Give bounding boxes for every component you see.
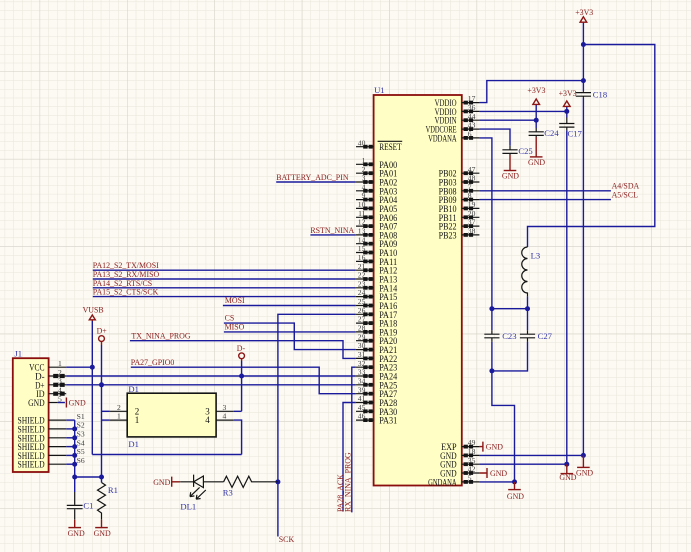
svg-text:GND: GND	[69, 398, 86, 407]
wire VDDANA to L3 bottom and C27	[492, 296, 528, 330]
svg-text:GND: GND	[576, 468, 593, 477]
U1 pin 49 EXP	[441, 438, 479, 452]
svg-text:20: 20	[468, 209, 476, 218]
U1 pin 12 PA07	[356, 218, 398, 232]
net label PA27_GPIO0	[131, 358, 175, 367]
wire SCK net: PA17 down to SCK label	[278, 314, 356, 536]
svg-text:23: 23	[358, 279, 366, 288]
svg-text:PB23: PB23	[439, 230, 457, 240]
net label TX_NINA_PROG	[131, 332, 190, 341]
J1 pin 4 ID	[36, 386, 66, 400]
svg-text:47: 47	[468, 165, 476, 174]
svg-text:GND: GND	[559, 473, 576, 482]
svg-text:24: 24	[358, 288, 366, 297]
J1 pin S4 SHIELD	[18, 438, 85, 452]
U1 pin 31 PA22	[356, 350, 397, 364]
svg-text:31: 31	[358, 350, 366, 359]
capacitor C24	[529, 128, 560, 138]
svg-text:25: 25	[358, 297, 366, 306]
svg-text:RX_NINA_PROG: RX_NINA_PROG	[343, 452, 352, 512]
J1 pin 5 GND	[28, 394, 62, 408]
svg-text:6: 6	[468, 130, 472, 139]
wire CS to PA21	[224, 323, 356, 350]
wire MISO to PA19	[224, 331, 356, 333]
net label MISO	[225, 323, 245, 332]
svg-text:16: 16	[358, 253, 366, 262]
U1 pin 45 PA30	[356, 403, 398, 417]
net label PA28_ACK (rotated)	[336, 474, 345, 512]
wire R1 top	[101, 477, 103, 483]
svg-text:8: 8	[468, 191, 472, 200]
svg-text:10: 10	[358, 200, 366, 209]
J1 pin 2 D-	[35, 368, 66, 382]
U1 pin 32 PA23	[356, 359, 398, 373]
svg-text:18: 18	[468, 447, 476, 456]
svg-text:PA31: PA31	[379, 416, 397, 426]
wire USB D+ row J1 to PA25	[66, 384, 356, 386]
svg-text:26: 26	[358, 306, 366, 315]
U1 pin 6 VDDANA	[428, 130, 479, 144]
svg-text:33: 33	[358, 368, 366, 377]
net label A4/SDA	[612, 182, 640, 191]
svg-text:R1: R1	[108, 485, 118, 495]
svg-text:C1: C1	[83, 501, 93, 511]
svg-text:C23: C23	[502, 331, 516, 341]
J1 pin S6 SHIELD	[18, 456, 85, 470]
net label PA15_S2_CTS/SCK	[93, 288, 159, 297]
U1 pin 39 PA27	[356, 385, 398, 399]
U1 pin 36 VDDIO	[435, 103, 480, 117]
svg-text:PA13_S2_RX/MISO: PA13_S2_RX/MISO	[93, 270, 160, 279]
ground at EXP pin49	[479, 442, 503, 452]
wire PA27_GPIO0 to PA27	[131, 367, 356, 394]
svg-text:4: 4	[205, 415, 210, 425]
svg-text:C18: C18	[593, 89, 607, 99]
U1 pin 41 PA28	[356, 394, 398, 408]
svg-text:46: 46	[358, 412, 366, 421]
J1 pin S2 SHIELD	[18, 421, 85, 435]
U1 pin 14 PA09	[356, 235, 398, 249]
svg-text:1: 1	[58, 359, 62, 368]
svg-text:SCK: SCK	[279, 535, 295, 544]
U1 pin 27 PA18	[356, 315, 398, 329]
wire A4/SDA from PB08	[479, 190, 611, 192]
svg-text:A4/SDA: A4/SDA	[612, 182, 640, 191]
svg-text:GND: GND	[507, 492, 524, 501]
J1 pin 1 VCC	[29, 359, 66, 373]
U1 pin 1 PA00	[356, 156, 398, 170]
U1 pin 7 PB08	[439, 182, 480, 196]
U1 pin 5 GNDANA	[428, 474, 479, 488]
svg-text:PA15_S2_CTS/SCK: PA15_S2_CTS/SCK	[93, 288, 159, 297]
U1 pin 48 PB03	[439, 174, 480, 188]
J1 pin S5 SHIELD	[18, 447, 85, 461]
capacitor C25	[502, 146, 532, 156]
U1 pin 9 PA04	[356, 191, 398, 205]
svg-text:S3: S3	[77, 430, 85, 439]
svg-text:MOSI: MOSI	[225, 296, 245, 305]
wire GND pin18 to C18 bottom	[479, 454, 583, 456]
J1 pin 3 D+	[35, 377, 66, 391]
svg-text:4: 4	[362, 182, 366, 191]
net label BATTERY_ADC_PIN	[276, 173, 349, 182]
U1 pin 29 PA20	[356, 332, 398, 346]
power VUSB	[83, 305, 104, 321]
ground under C18/GND18	[576, 455, 593, 477]
wire VUSB vertical	[91, 321, 93, 455]
U1 pin 44 VDDIN	[435, 112, 480, 126]
svg-text:44: 44	[468, 112, 476, 121]
U1 pin 40 RESET	[356, 138, 402, 152]
svg-text:BATTERY_ADC_PIN: BATTERY_ADC_PIN	[276, 173, 349, 182]
svg-text:+3V3: +3V3	[559, 89, 577, 98]
svg-text:9: 9	[362, 191, 366, 200]
U1 pin 20 PB11	[439, 209, 480, 223]
port D+ circle	[97, 326, 108, 345]
wire BATTERY_ADC_PIN to PA02	[276, 181, 356, 183]
svg-text:C24: C24	[544, 128, 559, 138]
inductor L3	[522, 247, 540, 296]
svg-text:PA12_S2_TX/MOSI: PA12_S2_TX/MOSI	[93, 261, 159, 270]
svg-text:GND: GND	[490, 469, 507, 478]
svg-text:DL1: DL1	[180, 501, 196, 511]
net label SCK	[279, 535, 295, 544]
svg-text:+3V3: +3V3	[527, 86, 545, 95]
svg-text:4: 4	[58, 386, 62, 395]
svg-text:PA14_S2_RTS/CS: PA14_S2_RTS/CS	[93, 279, 152, 288]
resistor R1	[98, 483, 118, 520]
U1 pin 38 PB23	[439, 227, 480, 241]
svg-text:43: 43	[468, 121, 476, 130]
ground under C25	[502, 155, 519, 181]
wire J1 GND pin5 stub	[58, 402, 65, 404]
wire shield bus vertical	[74, 420, 76, 477]
U1 pin 33 PA24	[356, 368, 398, 382]
wire VDDCORE pin43 to C25	[479, 129, 510, 146]
U1 pin 24 PA15	[356, 288, 398, 302]
svg-text:S2: S2	[77, 421, 85, 430]
wire +3V3 main stem	[582, 23, 584, 456]
wire VDDANA pin6 down to C23	[479, 138, 492, 330]
U1 pin 34 PA25	[356, 376, 398, 390]
svg-text:2: 2	[117, 403, 121, 412]
wire +3V3 to right rail and L3 top	[528, 45, 655, 248]
wire D+ vertical to R1	[101, 345, 103, 477]
port D- circle	[237, 344, 246, 361]
svg-text:48: 48	[468, 174, 476, 183]
wire VDDIN pin44 / +3V3 / C24	[479, 105, 536, 128]
wire MOSI to PA16	[223, 305, 356, 307]
svg-text:D+: D+	[97, 326, 108, 335]
svg-text:28: 28	[358, 324, 366, 333]
U1 pin 15 PA10	[356, 244, 398, 258]
U1 pin 30 PA21	[356, 341, 397, 355]
svg-text:14: 14	[358, 235, 366, 244]
U1 pin 10 PA05	[356, 200, 398, 214]
svg-text:MISO: MISO	[225, 323, 245, 332]
power +3V3 top	[575, 8, 593, 22]
U1 pin 28 PA19	[356, 324, 398, 338]
svg-text:42: 42	[468, 465, 476, 474]
U1 pin 25 PA16	[356, 297, 398, 311]
U1 pin 18 GND	[440, 447, 479, 461]
ground at DL1	[153, 477, 180, 487]
svg-text:S6: S6	[77, 456, 85, 465]
wire PA23 to RX_NINA_PROG vertical	[352, 367, 356, 512]
capacitor C23	[484, 330, 516, 342]
svg-text:15: 15	[358, 244, 366, 253]
svg-text:GND: GND	[528, 158, 545, 167]
ground under GNDANA	[507, 482, 524, 501]
D1 pin 2	[110, 403, 140, 416]
svg-text:1: 1	[117, 412, 121, 421]
svg-text:3: 3	[58, 377, 62, 386]
wire C17 bottom to GND pin35	[479, 130, 566, 464]
svg-text:GND: GND	[94, 529, 111, 538]
ground J1 pin5	[66, 398, 86, 408]
svg-text:32: 32	[358, 359, 366, 368]
svg-text:S4: S4	[77, 438, 85, 447]
svg-text:13: 13	[358, 227, 366, 236]
U1 pin 2 PA01	[356, 165, 397, 179]
svg-text:C27: C27	[538, 331, 553, 341]
svg-text:41: 41	[358, 394, 366, 403]
svg-text:1: 1	[135, 415, 140, 425]
U1 pin 21 PA12	[356, 262, 397, 276]
wire bottom junction to C1 and R1	[75, 477, 102, 492]
U1 pin 17 VDDIO	[435, 94, 480, 108]
net label MOSI	[225, 296, 245, 305]
svg-text:L3: L3	[531, 250, 541, 260]
wire bottom loop D1 pin1-pin4	[92, 454, 241, 456]
wire A5/SCL from PB09	[479, 199, 611, 201]
net label PA14_S2_RTS/CS	[93, 279, 152, 288]
ground under R1	[94, 520, 111, 538]
svg-text:GND: GND	[486, 443, 503, 452]
connector J1 body	[13, 349, 49, 472]
svg-text:R3: R3	[223, 487, 233, 497]
svg-text:11: 11	[358, 209, 366, 218]
U1 pin 19 PB10	[439, 200, 480, 214]
wire PA12_S2_TX/MOSI	[93, 269, 356, 271]
svg-text:29: 29	[358, 332, 366, 341]
wire PA13_S2_RX/MISO	[93, 278, 356, 280]
svg-text:CS: CS	[225, 314, 235, 323]
U1 pin 23 PA14	[356, 279, 398, 293]
U1 pin 43 VDDCORE	[426, 121, 480, 135]
wire VCC from J1 pin1	[66, 366, 92, 368]
svg-text:RSTN_NINA: RSTN_NINA	[310, 226, 354, 235]
D1 pin 4	[205, 412, 233, 425]
svg-text:5: 5	[468, 474, 472, 483]
svg-text:38: 38	[468, 227, 476, 236]
svg-text:37: 37	[468, 218, 476, 227]
svg-text:GNDANA: GNDANA	[428, 477, 457, 487]
svg-text:36: 36	[468, 103, 476, 112]
U1 pin 16 PA11	[356, 253, 397, 267]
U1 pin 35 GND	[440, 456, 479, 470]
wire C23/C27 bottoms to GNDANA pin5	[479, 342, 527, 482]
capacitor C18	[576, 89, 607, 99]
svg-text:34: 34	[358, 376, 366, 385]
U1 pin 13 PA08	[356, 227, 398, 241]
svg-text:7: 7	[468, 182, 472, 191]
net label A5/SCL	[612, 190, 638, 199]
svg-text:45: 45	[358, 403, 366, 412]
svg-text:12: 12	[358, 218, 366, 227]
U1 pin 11 PA06	[356, 209, 398, 223]
wire D1 pin1	[102, 419, 110, 421]
wire PA28 to PA28_ACK vertical	[343, 403, 356, 512]
svg-text:3: 3	[223, 403, 227, 412]
diode array D1 body	[127, 384, 216, 449]
svg-text:D-: D-	[237, 344, 246, 353]
ground under C24	[528, 137, 545, 167]
net label CS	[225, 314, 235, 323]
svg-text:J1: J1	[14, 349, 22, 359]
svg-text:GND: GND	[68, 529, 85, 538]
svg-text:TX_NINA_PROG: TX_NINA_PROG	[131, 332, 190, 341]
capacitor C27	[520, 330, 553, 342]
D1 pin 1	[110, 412, 140, 425]
svg-text:49: 49	[468, 438, 476, 447]
svg-text:GND: GND	[153, 478, 170, 487]
wire PA15_S2_CTS/SCK	[93, 296, 356, 298]
wire D1 pin4 to bottom loop	[234, 420, 242, 454]
capacitor C17	[559, 118, 582, 139]
svg-text:GND: GND	[502, 172, 519, 181]
svg-text:19: 19	[468, 200, 476, 209]
net label RX_NINA_PROG (rotated)	[343, 452, 352, 512]
wire VDDIO pin17	[479, 81, 583, 103]
svg-text:40: 40	[358, 138, 366, 147]
svg-text:21: 21	[358, 262, 366, 271]
svg-text:27: 27	[358, 315, 366, 324]
U1 pin 3 PA02	[356, 174, 397, 188]
wire D1 pin2 to D+ vertical	[102, 410, 110, 412]
ground under C17/GND35	[559, 464, 576, 482]
wire D1 pin3 to D- circle	[234, 361, 242, 411]
svg-text:2: 2	[362, 165, 366, 174]
J1 pin S3 SHIELD	[18, 430, 85, 444]
D1 pin 3	[205, 403, 233, 416]
svg-text:RESET: RESET	[379, 142, 402, 152]
svg-text:C25: C25	[518, 146, 532, 156]
wire VDDIO pin36 / +3V3 / C17	[479, 107, 566, 118]
svg-text:SHIELD: SHIELD	[18, 460, 46, 470]
svg-text:D1: D1	[128, 384, 139, 394]
svg-text:35: 35	[468, 456, 476, 465]
U1 pin 22 PA13	[356, 271, 398, 285]
net label RSTN_NINA	[310, 226, 354, 235]
U1 pin 37 PB22	[439, 218, 480, 232]
svg-text:U1: U1	[374, 85, 385, 95]
svg-text:VUSB: VUSB	[83, 305, 104, 314]
U1 pin 47 PB02	[439, 165, 480, 179]
svg-text:+3V3: +3V3	[575, 8, 593, 17]
svg-text:3: 3	[362, 174, 366, 183]
svg-text:22: 22	[358, 271, 366, 280]
svg-text:GND: GND	[28, 398, 45, 408]
capacitor C1	[67, 492, 94, 520]
svg-text:5: 5	[58, 394, 62, 403]
svg-text:2: 2	[58, 368, 62, 377]
U1 pin 46 PA31	[356, 412, 397, 426]
op-amp U1 body	[374, 85, 462, 485]
net label PA13_S2_RX/MISO	[93, 270, 160, 279]
resistor R3	[223, 476, 278, 497]
svg-text:C17: C17	[568, 129, 583, 139]
svg-text:S5: S5	[77, 447, 85, 456]
power +3V3 at C17	[559, 89, 577, 107]
svg-text:D1: D1	[128, 439, 139, 449]
U1 pin 8 PB09	[439, 191, 480, 205]
svg-text:VDDANA: VDDANA	[428, 133, 457, 143]
wire RSTN_NINA to PA08	[310, 234, 356, 236]
svg-text:1: 1	[362, 156, 366, 165]
U1 pin 26 PA17	[356, 306, 398, 320]
LED DL1	[180, 475, 223, 512]
svg-text:30: 30	[358, 341, 366, 350]
wire PA14_S2_RTS/CS	[93, 287, 356, 289]
net label PA12_S2_TX/MOSI	[93, 261, 159, 270]
U1 pin 4 PA03	[356, 182, 398, 196]
wire J1 shield pins to bus	[66, 420, 75, 464]
ground under C1	[68, 520, 85, 538]
svg-text:17: 17	[468, 94, 476, 103]
U1 pin 42 GND	[440, 465, 479, 479]
wire USB D- row J1 to PA24	[66, 375, 356, 377]
svg-text:4: 4	[223, 412, 227, 421]
svg-text:S1: S1	[77, 412, 85, 421]
power +3V3 at C24	[527, 86, 545, 104]
ground at GND pin42	[479, 468, 507, 478]
wire TX_NINA_PROG to PA22	[130, 341, 356, 359]
J1 pin S1 SHIELD	[18, 412, 85, 426]
svg-text:39: 39	[358, 385, 366, 394]
svg-text:A5/SCL: A5/SCL	[612, 190, 638, 199]
svg-text:PA27_GPIO0: PA27_GPIO0	[131, 358, 175, 367]
